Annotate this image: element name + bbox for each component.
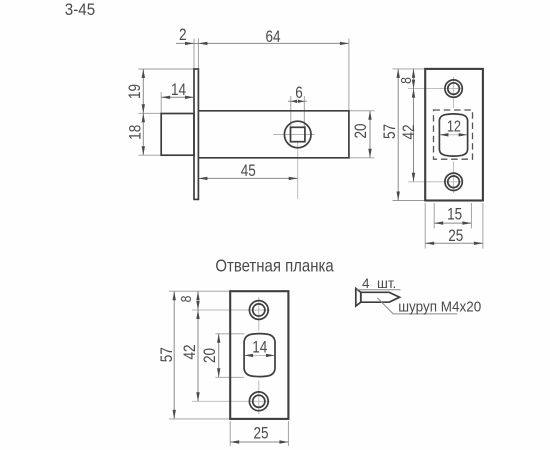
svg-text:14: 14: [171, 81, 186, 100]
svg-text:25: 25: [448, 227, 463, 246]
svg-text:57: 57: [381, 124, 400, 139]
svg-text:шт.: шт.: [377, 276, 396, 291]
svg-text:14: 14: [252, 338, 267, 357]
svg-text:25: 25: [253, 424, 268, 443]
svg-text:42: 42: [181, 344, 200, 359]
svg-text:19: 19: [126, 84, 145, 99]
svg-text:3-45: 3-45: [65, 1, 96, 19]
svg-text:45: 45: [241, 162, 256, 181]
svg-text:18: 18: [126, 125, 145, 140]
svg-text:шуруп M4x20: шуруп M4x20: [398, 298, 481, 315]
svg-text:42: 42: [400, 124, 419, 139]
svg-text:2: 2: [179, 26, 187, 45]
svg-text:8: 8: [178, 295, 194, 302]
svg-text:20: 20: [201, 348, 220, 363]
svg-text:12: 12: [447, 118, 461, 135]
svg-text:6: 6: [295, 84, 303, 103]
svg-text:64: 64: [265, 28, 280, 47]
svg-text:57: 57: [158, 347, 177, 362]
svg-text:20: 20: [352, 123, 371, 138]
svg-text:Ответная планка: Ответная планка: [215, 256, 334, 275]
svg-text:15: 15: [447, 205, 462, 224]
svg-text:4: 4: [362, 276, 370, 291]
svg-text:8: 8: [398, 77, 414, 84]
